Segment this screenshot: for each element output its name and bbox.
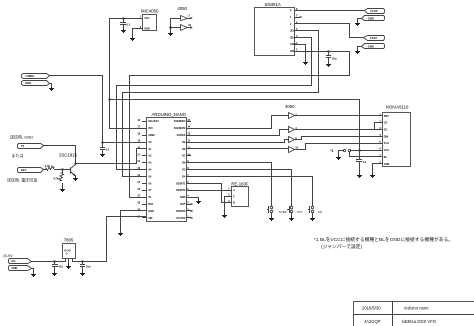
svg-text:KEY: KEY [21,168,27,172]
wire U1 GND pin to ground [121,211,147,232]
wire P6 GND to ground [358,47,362,50]
svg-text:GND: GND [384,163,390,166]
svg-text:SCL/D13: SCL/D13 [148,120,159,123]
svg-text:0.1: 0.1 [126,22,130,26]
buffer gate U2A [289,113,298,119]
display DS1 NOKIA5110 [379,104,411,166]
wire regulator OUT to U1 VIN [73,217,147,262]
wire U3 VIN from 5V rail [300,52,350,76]
wire U2 GND pin8 [133,29,143,37]
svg-text:0.1: 0.1 [363,160,367,164]
svg-text:4.7k: 4.7k [53,177,59,181]
svg-text:CLK0: CLK0 [370,9,378,13]
ground U3 GND [303,61,308,65]
connector flag P10 KEY [18,168,44,173]
svg-text:GND: GND [180,196,186,199]
connector P5 CLK2 [364,36,385,41]
wire U1 D9 to U2C input [191,140,289,143]
svg-text:4050: 4050 [285,104,295,109]
svg-text:CLK: CLK [384,142,389,145]
wire U2C output to LCD DIN [295,137,383,140]
wire U1 to switch CH [191,177,313,206]
svg-text:RST: RST [148,203,153,206]
svg-text:si5351a DDS VFO: si5351a DDS VFO [402,319,437,324]
svg-text:STEP: STEP [279,210,287,214]
capacitor C2 10u on U3 VIN [326,50,337,66]
connector P4 GND (CLK0 return) [362,16,385,21]
svg-text:4.7k: 4.7k [45,164,51,168]
capacitor C6 0.1 on LCD VCC [357,151,367,178]
wire U1 D11 to U2A input [191,116,289,129]
svg-text:GND: GND [368,44,374,48]
svg-text:ARDUINO_NANO: ARDUINO_NANO [152,112,187,117]
svg-text:*1: *1 [330,149,333,153]
svg-text:Si5351A: Si5351A [265,2,281,7]
jumper JP1 BL select [330,149,350,159]
wire U1 5V pin to 5V rail [130,197,147,199]
svg-text:GND: GND [25,81,31,85]
svg-text:3V3: 3V3 [148,127,153,130]
svg-text:5V: 5V [148,196,151,199]
svg-text:RST: RST [384,115,389,118]
svg-text:GND: GND [148,210,154,213]
svg-text:C: C [233,195,235,198]
svg-text:AREF: AREF [148,134,155,137]
svg-text:D10/SS: D10/SS [177,134,186,137]
buffer gate U2D [289,147,299,153]
connector flag P1 DC input [9,259,32,264]
svg-text:送信時, 電圧印加: 送信時, 電圧印加 [7,177,37,183]
connector P3 CLK0 [365,9,385,14]
svg-text:SDA: SDA [290,36,295,39]
wire U2D output to LCD CLK [295,144,383,150]
svg-text:RST: RST [180,203,185,206]
svg-text:JA2GQP: JA2GQP [364,319,381,324]
buffer gate U2B [289,127,298,133]
svg-text:A: A [233,189,235,192]
wire U1 right GND to ground [191,198,199,200]
wire U2B output to LCD DC [295,129,383,131]
connector flag P7 7.8MHz input [22,74,50,79]
svg-text:VCC: VCC [384,149,389,152]
wire U1 D2 to RE1 pin1 [191,190,228,192]
connector flag P2 GND [9,266,32,271]
svg-text:D0/RXD: D0/RXD [176,210,185,213]
svg-text:GND: GND [144,28,150,31]
wire P8 GND to ground [50,84,52,87]
wire U1 D8 to U2D input [191,149,289,150]
wire JP1 to LCD BL [350,152,383,157]
resistor R1 4.7k [44,164,63,170]
svg-text:CE: CE [384,122,388,125]
ground spare gate inputs [168,32,173,36]
wire Q1 collector vertical [75,164,77,165]
connector flag P9 TX [18,144,44,149]
wire P4 GND to ground [358,19,362,22]
wire U1 to switch STEP [191,163,272,206]
svg-text:B: B [233,202,235,205]
capacitor C4 47u input [52,260,63,275]
wire SCL U3 to A5 [123,31,319,177]
no-connect U3 pin1 [300,16,302,18]
regulator U4 7805 [63,237,76,268]
connector flag P8 GND [22,81,50,86]
svg-text:GND: GND [12,266,18,270]
switch SW STEP [268,206,287,220]
svg-text:G: G [66,253,68,256]
svg-text:GND: GND [368,16,374,20]
rotary encoder RE1 [228,181,249,206]
spare gate U2F [181,24,193,31]
svg-text:TX: TX [21,144,25,148]
svg-text:D2/INT0: D2/INT0 [176,189,186,192]
svg-text:10u: 10u [332,56,337,60]
wire Q1 collector to A1 [76,149,147,164]
transistor Q1 2SC1815 [59,152,78,180]
svg-text:7805: 7805 [64,237,74,242]
wire TX flag to Q1 collector [44,146,76,164]
svg-text:送信時, GND: 送信時, GND [10,134,33,140]
wire U1 to switch RIT [191,170,292,206]
wire 5V rail [130,76,350,198]
connector P6 GND (CLK2 return) [362,44,385,49]
svg-text:CLK2: CLK2 [370,36,378,40]
ground below U2 pin8 [130,37,135,41]
svg-text:DC: DC [12,259,16,263]
wire LCD GND pin8 to ground [373,164,383,174]
svg-text:4050: 4050 [177,6,187,11]
wire U1 3V3 pin [110,100,147,129]
svg-text:(ジャンパーで設定): (ジャンパーで設定) [321,243,362,250]
IC U2 power unit MIC4050 [140,9,159,31]
wire U3 pin0 CLK0 to connector [300,10,365,12]
wire spare gate inputs tied [171,19,181,32]
svg-text:GND: GND [290,43,296,46]
wire U3 pin2 CLK2 to connector [300,24,364,38]
svg-text:(5-9V: (5-9V [3,254,13,258]
svg-text:DC: DC [384,129,388,132]
spare gate U2E [181,15,193,21]
switch SW RIT [288,206,303,220]
svg-text:10u: 10u [86,265,91,269]
wire U3 GND to ground [300,45,306,61]
svg-text:MIC4050: MIC4050 [141,9,159,14]
svg-text:D12/MISO: D12/MISO [174,120,186,123]
wire DC input to regulator IN [32,259,66,262]
wire P2 GND to ground [32,269,34,273]
wire LCD CE tap [375,123,383,130]
wire U1 D3 to RE1 pin3 [191,184,228,203]
svg-text:2016/5/30: 2016/5/30 [362,306,381,311]
wire 7.8MHz to A0 [50,76,147,143]
svg-text:D11/MOSI: D11/MOSI [174,127,186,130]
wire U1 D10 to U2B input [191,130,289,136]
svg-text:SCL: SCL [290,30,295,33]
svg-text:VIN: VIN [290,50,294,53]
IC U3 Si5351A [255,2,300,56]
svg-text:D1/TXD: D1/TXD [177,217,186,220]
svg-text:VIN: VIN [148,217,152,220]
svg-text:DIN: DIN [384,135,389,138]
switch SW CH [309,206,323,220]
svg-text:7.8MHz: 7.8MHz [25,74,35,78]
svg-text:VCC: VCC [144,17,149,20]
resistor R2 4.7k [53,170,65,192]
svg-text:D3/INT1: D3/INT1 [176,182,186,185]
wire SDA U3 to A4 [117,38,312,170]
svg-text:または: または [11,152,23,158]
svg-text:BL: BL [384,156,388,159]
svg-text:2SC1815: 2SC1815 [59,152,78,157]
svg-text:Arduino nano: Arduino nano [404,306,430,311]
capacitor C3 0.1 on A0 [100,143,110,157]
svg-text:NOKIA5110: NOKIA5110 [386,104,409,109]
no-connect marks U1 right RST D0 D1 [191,203,193,219]
svg-text:0.1: 0.1 [106,147,110,151]
capacitor C5 10u output [80,260,91,275]
wire RE1 common to ground [225,197,228,214]
wire U2A output to LCD RST [295,115,383,117]
svg-text:47u: 47u [58,265,63,269]
IC U1 ARDUINO_NANO [137,112,190,221]
buffer gate U2C [289,137,298,143]
wire 3V3 rail to LCD VCC [110,100,360,151]
wire U2 VCC pin1 to 3V3 rail [110,19,143,100]
capacitor C1 0.1 on U2 VCC [121,17,131,32]
title block [354,302,474,326]
svg-text:RE-160F: RE-160F [231,181,249,186]
svg-text:RIT: RIT [297,210,302,214]
wire JP1 to LCD VCC [351,150,383,152]
svg-text:CH: CH [318,210,322,214]
svg-text:*1 BLをVCCに接続する機種とBLをGNDに接続する機: *1 BLをVCCに接続する機種とBLをGNDに接続する機種がある。 [314,236,453,243]
